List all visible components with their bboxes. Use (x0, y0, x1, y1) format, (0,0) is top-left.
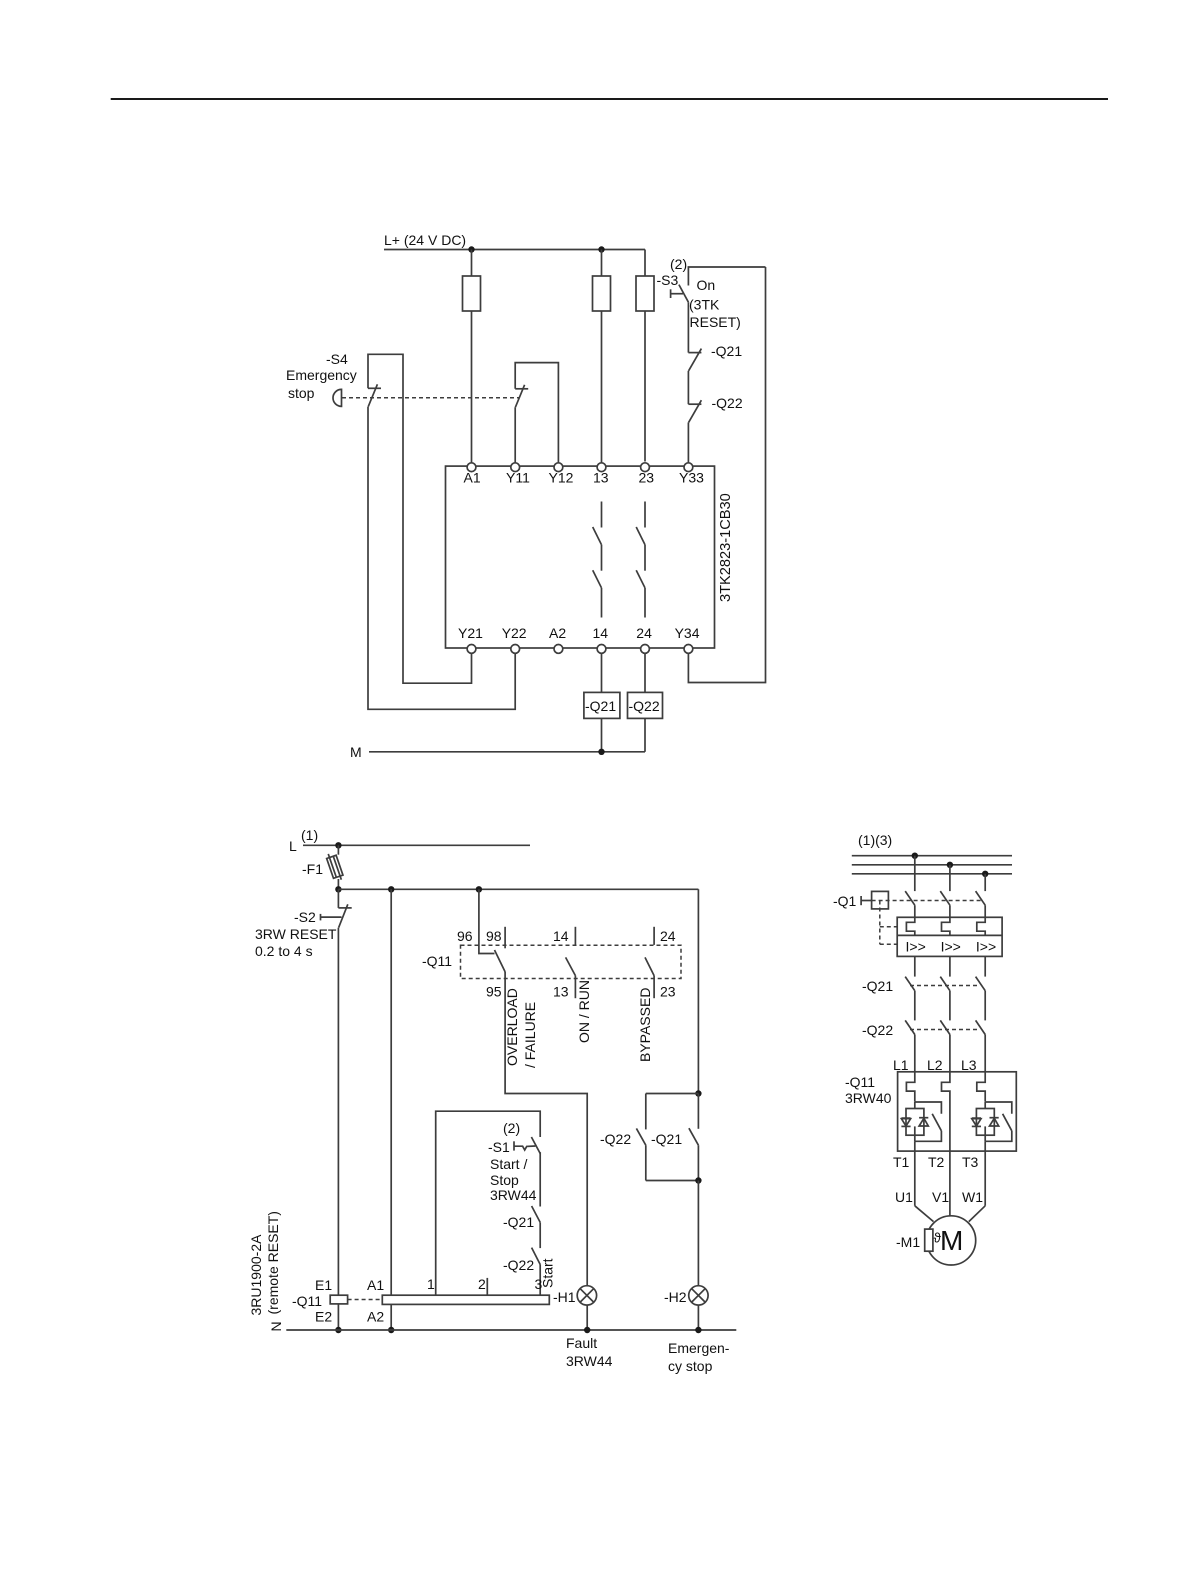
svg-text:13: 13 (553, 984, 569, 1000)
contact Q11 13-14 ON/RUN NO (574, 927, 576, 945)
wire W1 slant (969, 1206, 985, 1222)
wire S1 to Q21 (539, 1152, 541, 1206)
contact Q21 NC feedback (688, 352, 701, 354)
svg-text:I>>: I>> (941, 939, 961, 955)
dashed link Q1 to releases (879, 901, 881, 945)
svg-text:E1: E1 (315, 1277, 332, 1293)
wire rail to S2 (337, 889, 339, 908)
wire S4 channel1 to Y22 return (368, 407, 515, 710)
svg-text:-S1: -S1 (488, 1139, 510, 1155)
junction dot A1 column (468, 246, 474, 252)
junction dot A2-N (388, 1327, 394, 1333)
svg-text:L: L (289, 838, 297, 854)
lamp H2 Emergency stop (689, 1286, 708, 1305)
contact S4 channel1 NC (368, 387, 381, 389)
svg-text:-Q22: -Q22 (712, 395, 743, 411)
wire S3 to Q21 (687, 302, 689, 352)
svg-text:-S3: -S3 (657, 272, 679, 288)
fuse F-13 (593, 276, 611, 311)
svg-text:(remote RESET): (remote RESET) (265, 1211, 281, 1314)
wire U1 slant (915, 1206, 934, 1222)
starter jog pole2 (942, 1072, 950, 1151)
svg-text:-Q11: -Q11 (292, 1293, 322, 1309)
wire F1 top stub (337, 845, 339, 854)
svg-text:-Q11: -Q11 (422, 953, 452, 969)
junction dot phase1 tap (912, 853, 918, 859)
wire parallel top link (646, 1093, 699, 1095)
svg-text:23: 23 (639, 469, 655, 485)
junction dot phase3 tap (982, 871, 988, 877)
breaker Q1 operator box (872, 891, 889, 909)
motor M1 circle (927, 1216, 976, 1265)
svg-text:U1: U1 (895, 1189, 913, 1205)
terminal Y22 (511, 645, 520, 654)
wire Q22 to Y33 (687, 422, 689, 462)
svg-text:-M1: -M1 (896, 1234, 920, 1250)
wire control rail (338, 888, 698, 890)
contactor Q22 main poles NO (905, 1020, 985, 1034)
breaker Q1 pole contacts (905, 891, 985, 917)
S4 actuator dashed link (342, 397, 519, 399)
junction dot M rail (598, 749, 604, 755)
wire phase line 2 (852, 864, 1012, 866)
junction dot E2-N (335, 1327, 341, 1333)
pin 98 stub (504, 927, 506, 949)
fuse F-23 (636, 276, 654, 311)
svg-text:Emergency: Emergency (286, 367, 357, 383)
svg-text:-Q22: -Q22 (600, 1131, 631, 1147)
svg-text:-Q22: -Q22 (862, 1022, 893, 1038)
svg-text:E2: E2 (315, 1309, 332, 1325)
terminal A1 (467, 463, 476, 472)
svg-text:Y22: Y22 (502, 625, 527, 641)
wire coil Q21 to M (601, 718, 603, 751)
svg-text:M: M (940, 1225, 963, 1256)
svg-text:Y11: Y11 (506, 469, 530, 485)
svg-text:Stop: Stop (490, 1172, 519, 1188)
svg-text:A1: A1 (367, 1277, 384, 1293)
thermistor box on motor (925, 1229, 933, 1251)
wire phase drops to Q1 (914, 856, 916, 891)
junction dot L / F1 (335, 842, 341, 848)
svg-text:RESET): RESET) (690, 314, 741, 330)
pushbutton S2 3RW RESET NC (338, 907, 351, 909)
svg-text:M: M (350, 744, 362, 760)
contact 23-24 internal NO (636, 502, 645, 618)
svg-text:stop: stop (288, 385, 315, 401)
svg-text:L+ (24 V DC): L+ (24 V DC) (384, 232, 466, 248)
wire Q22 to terminal 3 (539, 1265, 541, 1296)
wire right branch drop (697, 889, 699, 1093)
terminal 14 (597, 645, 606, 654)
mechanical link E-coil to A-coil dashed (348, 1299, 383, 1301)
svg-text:3: 3 (535, 1276, 543, 1292)
soft starter Q11 3RW40 box (898, 1072, 1017, 1151)
svg-text:(3TK: (3TK (689, 297, 720, 313)
svg-text:I>>: I>> (976, 939, 996, 955)
contactor Q21 main poles NO (905, 977, 985, 991)
thermal release jog pole1 (906, 917, 914, 935)
svg-text:-Q21: -Q21 (862, 978, 893, 994)
svg-text:-Q22: -Q22 (503, 1257, 534, 1273)
junction dot H1-N (584, 1327, 590, 1333)
terminal A2 (554, 645, 563, 654)
wire L rail (303, 844, 530, 846)
svg-text:1: 1 (427, 1276, 435, 1292)
svg-text:OVERLOAD: OVERLOAD (504, 988, 520, 1066)
svg-text:2: 2 (478, 1276, 486, 1292)
wire A1 branch drop (390, 889, 392, 1295)
starter jog pole3 (977, 1072, 985, 1102)
bypass contact pole1 (915, 1102, 942, 1114)
contact Q21 NO seal-in (532, 1206, 541, 1222)
wire F1 bottom stub (337, 879, 339, 889)
svg-text:L1: L1 (893, 1057, 909, 1073)
wires below release box (914, 956, 916, 976)
wire N rail (286, 1329, 736, 1331)
svg-text:-Q11: -Q11 (845, 1074, 875, 1090)
svg-text:3RW44: 3RW44 (490, 1187, 537, 1203)
svg-text:Y21: Y21 (458, 625, 483, 641)
svg-text:A2: A2 (549, 625, 566, 641)
svg-text:-S2: -S2 (294, 909, 316, 925)
coil Q22 (628, 692, 663, 718)
wire S2 to E1 (337, 928, 339, 1295)
svg-text:-F1: -F1 (302, 861, 323, 877)
wire M rail (369, 751, 645, 753)
wire Q21 to Q22 (539, 1222, 541, 1248)
svg-text:98: 98 (486, 928, 502, 944)
junction dot H2-N (695, 1327, 701, 1333)
svg-text:W1: W1 (962, 1189, 983, 1205)
wire 13 column drop (601, 250, 603, 463)
contact Q22 NO parallel left (645, 1094, 647, 1130)
wire coil Q22 to M (644, 718, 646, 751)
svg-text:A2: A2 (367, 1309, 384, 1325)
wire 95 drop to H1 (505, 972, 587, 1286)
terminal 24 (641, 645, 650, 654)
svg-text:Y12: Y12 (549, 469, 574, 485)
svg-text:BYPASSED: BYPASSED (637, 988, 653, 1062)
wire Q21 to Q22 (687, 371, 689, 404)
coil Q11-E remote reset (330, 1295, 347, 1304)
fuse F1 (325, 852, 344, 882)
release box Q1 (897, 917, 1002, 956)
wire right rail Y33-Y34 loop (688, 267, 765, 683)
dashed actuator link Q1 poles (872, 900, 982, 902)
svg-text:Start /: Start / (490, 1156, 527, 1172)
wire 24 to coil Q22 (644, 654, 646, 693)
contact 13-14 internal NO (593, 502, 602, 618)
terminal Y21 (467, 645, 476, 654)
svg-text:T1: T1 (893, 1154, 910, 1170)
wire S4 channel2 to Y11 (514, 407, 516, 462)
svg-text:Emergen-: Emergen- (668, 1340, 730, 1356)
svg-text:(2): (2) (670, 256, 687, 272)
lamp H1 Fault (577, 1286, 596, 1305)
wire S3 branch top (688, 267, 765, 286)
wire 96 branch drop (479, 889, 495, 953)
svg-text:14: 14 (593, 625, 609, 641)
svg-text:Y34: Y34 (675, 625, 700, 641)
wire S4 loop channel1 top (368, 354, 472, 683)
terminal Y12 (554, 463, 563, 472)
terminal Y34 (684, 645, 693, 654)
coil Q11-A main coil bar (382, 1295, 549, 1304)
svg-text:13: 13 (593, 469, 609, 485)
relay U1 3TK2823 box (446, 466, 715, 648)
svg-text:3RW RESET: 3RW RESET (255, 926, 337, 942)
wire H1 to N (586, 1305, 588, 1330)
junction dot 13 column (598, 246, 604, 252)
contact Q22 NO Start (532, 1248, 541, 1265)
svg-text:Y33: Y33 (679, 469, 704, 485)
svg-text:3RU1900-2A: 3RU1900-2A (248, 1234, 264, 1316)
svg-text:T3: T3 (962, 1154, 979, 1170)
svg-text:95: 95 (486, 984, 502, 1000)
svg-text:N: N (268, 1321, 284, 1331)
svg-text:24: 24 (660, 928, 676, 944)
svg-text:0.2 to 4 s: 0.2 to 4 s (255, 943, 313, 959)
wire 23 column drop (644, 250, 646, 462)
svg-text:-S4: -S4 (326, 351, 348, 367)
fuse F-A1 (463, 276, 481, 311)
wires to motor terminals (914, 1151, 916, 1206)
contact Q11 95-96-98 changeover (495, 950, 506, 972)
dashed outline Q11 auxiliary contacts (461, 945, 682, 978)
wire L+ rail (384, 249, 645, 251)
junction dot 96 branch (476, 886, 482, 892)
terminal Y33 (684, 463, 693, 472)
wire pole1 to T1 (914, 1141, 916, 1151)
svg-text:96: 96 (457, 928, 473, 944)
contact Q11 23-24 BYPASSED NO (653, 927, 655, 945)
thermal release jog pole3 (977, 917, 985, 935)
wire phase line 1 (852, 855, 1012, 857)
svg-text:L3: L3 (961, 1057, 977, 1073)
svg-text:(1)(3): (1)(3) (858, 832, 892, 848)
dashed actuator link Q22 (910, 1029, 980, 1031)
svg-text:24: 24 (636, 625, 652, 641)
wire E2 to N (337, 1304, 339, 1330)
svg-text:-Q21: -Q21 (585, 698, 616, 714)
dashed actuator link Q21 (910, 985, 980, 987)
svg-text:(2): (2) (503, 1120, 520, 1136)
junction dot parallel top (695, 1090, 701, 1096)
wire to H2 (697, 1181, 699, 1286)
svg-text:Fault: Fault (566, 1335, 597, 1351)
svg-text:-Q21: -Q21 (503, 1214, 534, 1230)
bracket wire terminal1 to S1 (436, 1111, 541, 1295)
junction dot A1 branch (388, 886, 394, 892)
terminal Y11 (511, 463, 520, 472)
svg-text:-H1: -H1 (553, 1289, 576, 1305)
svg-text:3TK2823-1CB30: 3TK2823-1CB30 (718, 493, 734, 602)
svg-text:T2: T2 (928, 1154, 945, 1170)
svg-text:(1): (1) (301, 827, 318, 843)
coil Q21 (584, 692, 620, 718)
svg-text:ON / RUN: ON / RUN (576, 980, 592, 1043)
thyristor module pole1 (901, 1102, 928, 1141)
wire parallel bottom link (646, 1180, 699, 1182)
terminal 13 (597, 463, 606, 472)
svg-text:-Q21: -Q21 (711, 343, 742, 359)
svg-text:/ FAILURE: / FAILURE (522, 1002, 538, 1068)
svg-text:V1: V1 (932, 1189, 949, 1205)
svg-text:3RW44: 3RW44 (566, 1353, 613, 1369)
svg-text:I>>: I>> (906, 939, 926, 955)
starter jog pole1 (906, 1072, 914, 1102)
wire H2 to N (697, 1305, 699, 1330)
emergency stop S4 mushroom head (333, 389, 342, 406)
contact Q22 NC feedback (688, 403, 701, 405)
wire A1 column drop (471, 250, 473, 463)
wire S4 loop channel2 top (515, 363, 558, 463)
wire A2 to N (390, 1304, 392, 1330)
junction dot control rail left (335, 886, 341, 892)
svg-text:-Q22: -Q22 (629, 698, 660, 714)
junction dot parallel bottom (695, 1177, 701, 1183)
contact Q21 NO parallel right (697, 1094, 699, 1129)
header rule (111, 98, 1108, 100)
svg-text:-Q1: -Q1 (833, 893, 857, 909)
contact S4 channel2 NC (515, 388, 528, 390)
svg-text:A1: A1 (464, 469, 481, 485)
junction dot phase2 tap (947, 862, 953, 868)
svg-text:On: On (697, 277, 716, 293)
svg-text:14: 14 (553, 928, 569, 944)
bypass contact pole3 (985, 1102, 1012, 1114)
svg-text:-Q21: -Q21 (651, 1131, 682, 1147)
thyristor module pole3 (972, 1102, 999, 1141)
thermal release jog pole2 (942, 917, 950, 935)
terminal 23 (641, 463, 650, 472)
pushbutton S1 Start/Stop NO (531, 1137, 540, 1154)
svg-text:cy stop: cy stop (668, 1358, 713, 1374)
wire 14 to coil Q21 (601, 654, 603, 693)
wire phase line 3 (852, 873, 1012, 875)
svg-text:ϑ: ϑ (934, 1231, 942, 1246)
pushbutton S3 (On / 3TK RESET) (679, 285, 689, 303)
wires Q22 to soft starter (914, 1035, 916, 1072)
svg-text:3RW40: 3RW40 (845, 1090, 892, 1106)
terminal 2 stub (486, 1278, 488, 1295)
svg-text:23: 23 (660, 984, 676, 1000)
svg-text:L2: L2 (927, 1057, 943, 1073)
wire pole3 to T3 (984, 1141, 986, 1151)
svg-text:-H2: -H2 (664, 1289, 687, 1305)
wires Q21 to Q22 (914, 991, 916, 1021)
